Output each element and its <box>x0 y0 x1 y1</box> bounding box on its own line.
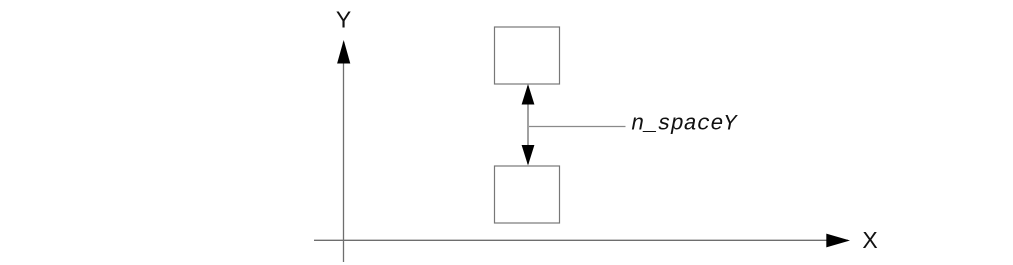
Y axis arrowhead <box>337 40 350 64</box>
dimension arrowhead down <box>522 145 535 166</box>
X axis line <box>314 239 848 241</box>
svg-text:Y: Y <box>336 7 351 33</box>
bottom box <box>495 166 560 223</box>
svg-text:n_spaceY: n_spaceY <box>631 112 738 137</box>
dimension arrowhead up <box>522 84 535 105</box>
top box <box>495 27 560 84</box>
dimension arrow shaft <box>527 86 529 164</box>
svg-text:X: X <box>862 227 877 253</box>
Y axis line <box>343 42 345 262</box>
X axis arrowhead <box>826 234 850 248</box>
leader line <box>529 126 626 128</box>
